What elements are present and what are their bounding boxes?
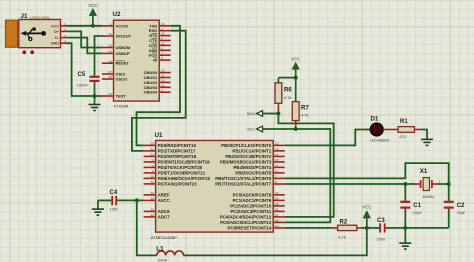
ground (R1) [421,139,433,145]
junction R6/SDA [276,112,280,116]
svg-text:19: 19 [150,208,154,212]
svg-text:R2: R2 [340,220,348,226]
svg-text:2: 2 [439,180,441,184]
crystal X1 16MHz [412,168,449,199]
wire PB7/XTAL2 to crystal [285,183,416,185]
svg-text:LED-GREEN: LED-GREEN [370,139,389,143]
junction crystal pin1/C1 [403,182,407,186]
svg-text:17: 17 [275,169,279,173]
wire L1 to VCC junction [184,228,367,256]
svg-text:C1: C1 [413,203,421,209]
resistor R6 4.7k [275,78,292,114]
svg-text:4.7k: 4.7k [301,113,309,118]
capacitor C2 22pF [444,184,466,228]
resistor R7 4.7k [292,78,309,129]
junction crystal pin2/C2 [447,182,451,186]
svg-text:PC0/ADC0/PCINT8: PC0/ADC0/PCINT8 [233,193,272,198]
svg-text:GND: GND [51,42,60,46]
svg-text:VCC: VCC [362,204,371,209]
junction C1 ground [403,226,407,230]
svg-text:AVCC: AVCC [158,198,171,203]
wire C1/C2 bottoms [405,227,448,229]
led D1 LED-GREEN [367,115,399,142]
wire GND net (J1 GND - C5 - TEST) [67,43,103,96]
wire PC6/RESET to R2 [285,227,332,229]
svg-text:1: 1 [64,22,66,26]
wire SCL to PC5 [263,129,331,222]
wire AVCC down to L1 [137,200,157,255]
svg-text:3: 3 [161,56,163,60]
svg-text:14: 14 [275,153,279,157]
svg-text:15: 15 [108,44,112,48]
svg-text:10: 10 [150,175,154,179]
svg-text:21: 21 [161,74,165,78]
svg-text:32: 32 [161,32,165,36]
svg-text:27: 27 [275,213,279,217]
capacitor C3 100n [377,218,406,241]
svg-text:U2: U2 [113,11,121,18]
svg-text:D1: D1 [371,115,379,122]
svg-text:VCC: VCC [51,24,59,28]
junction VCC/R2/C3/L1 [365,226,369,230]
svg-text:20: 20 [150,191,154,195]
svg-text:PC6/RESET/PCINT14: PC6/RESET/PCINT14 [228,226,272,231]
wire SDA to PC4 [263,114,334,217]
svg-text:ATMEGA328P: ATMEGA328P [151,235,177,240]
svg-text:ADC7: ADC7 [158,215,171,220]
svg-text:RI: RI [153,58,157,63]
capacitor C5 100nF [77,72,100,96]
svg-text:RESET: RESET [116,61,130,66]
wire R2 to VCC junction [362,227,379,229]
svg-text:1: 1 [152,158,154,162]
svg-text:C4: C4 [110,190,118,196]
svg-text:PD5/T1/OC0B/PCINT21: PD5/T1/OC0B/PCINT21 [158,171,206,176]
resistor R1 470 [398,119,422,139]
svg-text:PC5/ADC5/SCL/PCINT13: PC5/ADC5/SCL/PCINT13 [220,220,272,225]
svg-text:PD0/RXD/PCINT16: PD0/RXD/PCINT16 [158,143,197,148]
svg-text:18: 18 [150,197,154,201]
svg-text:10mH: 10mH [157,258,167,262]
svg-text:PD7/AIN1/PCINT23: PD7/AIN1/PCINT23 [158,182,198,187]
svg-text:FT232R: FT232R [114,103,129,108]
svg-text:C5: C5 [78,72,86,78]
svg-text:14: 14 [108,50,112,54]
svg-text:28: 28 [108,75,112,79]
svg-text:SCL: SCL [247,127,255,132]
wire VCC J1-VCCIO [67,25,103,27]
connector J1 USBCONN [6,13,67,54]
svg-text:R7: R7 [301,106,309,112]
svg-text:7: 7 [161,51,163,55]
svg-text:16MHz: 16MHz [422,195,434,199]
svg-text:1: 1 [110,22,112,26]
wire D- to USBDP [67,38,103,54]
svg-text:USBDP: USBDP [116,51,130,56]
svg-text:12: 12 [275,142,279,146]
svg-text:28: 28 [275,219,279,223]
svg-text:PC2/ADC2/PCINT10: PC2/ADC2/PCINT10 [230,204,272,209]
svg-text:100nF: 100nF [77,83,89,88]
svg-text:9: 9 [152,169,154,173]
svg-text:L1: L1 [156,245,164,252]
svg-text:VCC: VCC [88,3,97,8]
svg-text:PD2/INT0/PCINT18: PD2/INT0/PCINT18 [158,154,197,159]
chip U2 FT232R [102,11,171,108]
junction C5 ground [93,94,97,98]
svg-text:USBCONN: USBCONN [30,15,50,20]
svg-text:25: 25 [275,202,279,206]
svg-text:TEST: TEST [116,94,127,99]
svg-text:8: 8 [161,37,163,41]
svg-text:C2: C2 [457,203,465,209]
inductor L1 10mH [156,245,183,262]
wire D+ to USBDM [67,31,103,47]
svg-text:29: 29 [275,224,279,228]
wire 3V3OUT to C5 [95,36,103,76]
wire TXD to PD0/RXD [137,26,181,146]
svg-text:PB0/ICP1/CLKO/PCINT0: PB0/ICP1/CLKO/PCINT0 [221,143,272,148]
wire R1 to ground [422,130,427,140]
svg-text:PB6/TOSC1/XTAL1/PCINT6: PB6/TOSC1/XTAL1/PCINT6 [215,176,272,181]
svg-text:4: 4 [64,39,66,43]
svg-text:16: 16 [108,32,112,36]
wire VCC to R6/R7 tops [278,77,295,79]
svg-text:R6: R6 [284,88,292,94]
wire PB0 to LED D1 [285,130,371,146]
svg-text:PB5/SCK/PCINT5: PB5/SCK/PCINT5 [235,171,271,176]
wire ground to C4 [98,199,111,201]
power flag VCC (reset/C3) [362,204,371,228]
svg-text:31: 31 [161,42,165,46]
svg-text:31: 31 [150,147,154,151]
svg-text:PB3/MOSI/OC2A/PCINT3: PB3/MOSI/OC2A/PCINT3 [220,160,272,165]
svg-text:VCC: VCC [291,57,300,62]
svg-text:22pF: 22pF [413,211,422,215]
svg-text:22: 22 [150,213,154,217]
svg-text:22pF: 22pF [457,211,466,215]
svg-text:C3: C3 [377,218,385,224]
power flag VCC (J1/U2) [88,3,97,26]
svg-text:15: 15 [275,158,279,162]
svg-text:7: 7 [275,175,277,179]
svg-text:6: 6 [161,46,163,50]
svg-text:PD6/AIN0/OC0A/PCINT22: PD6/AIN0/OC0A/PCINT22 [158,176,211,181]
svg-text:3V3OUT: 3V3OUT [116,34,132,39]
svg-text:OSCO: OSCO [116,77,128,82]
svg-text:2: 2 [152,164,154,168]
svg-text:30: 30 [161,22,165,26]
svg-text:30: 30 [150,142,154,146]
svg-text:22: 22 [161,69,165,73]
svg-text:VCCIO: VCCIO [116,23,129,28]
svg-text:9: 9 [161,88,163,92]
svg-text:R1: R1 [400,119,408,125]
svg-text:J1: J1 [21,13,28,20]
svg-text:PB4/MISO/PCINT4: PB4/MISO/PCINT4 [233,165,271,170]
svg-text:26: 26 [108,92,112,96]
svg-text:18: 18 [108,59,112,63]
power flag VCC (R6/R7) [291,57,300,78]
svg-text:PD4/T0/XCK/PCINT20: PD4/T0/XCK/PCINT20 [158,165,203,170]
wire RXD to PD1/TXD [132,31,186,151]
svg-text:10: 10 [161,79,165,83]
svg-text:PB2/SS/OC1B/PCINT2: PB2/SS/OC1B/PCINT2 [225,154,271,159]
svg-text:SDA: SDA [247,111,255,116]
svg-text:8: 8 [275,180,277,184]
wire PB6/XTAL1 staple [285,163,449,184]
svg-text:CBUS4: CBUS4 [144,90,158,95]
svg-text:100n: 100n [110,208,118,212]
svg-text:11: 11 [161,83,164,87]
terminal SCL [247,126,262,132]
resistor R2 4.7k [332,220,362,240]
svg-text:2: 2 [64,28,66,32]
svg-text:100n: 100n [377,237,385,241]
svg-text:470: 470 [399,134,406,139]
svg-text:4.7k: 4.7k [338,234,346,239]
svg-text:24: 24 [275,197,279,201]
ground (below C5) [94,96,96,104]
svg-text:4.7k: 4.7k [284,95,292,100]
svg-text:PD1/TXD/PCINT17: PD1/TXD/PCINT17 [158,149,196,154]
junction R7/SCL [294,127,298,131]
ground (C4) [97,200,99,208]
svg-text:16: 16 [275,164,279,168]
svg-text:ADC6: ADC6 [158,209,171,214]
svg-text:AREF: AREF [158,193,170,198]
svg-text:PB1/OC1A/PCINT1: PB1/OC1A/PCINT1 [232,149,271,154]
svg-text:23: 23 [275,191,279,195]
chip U1 ATMEGA328P [144,132,285,240]
svg-text:X1: X1 [420,168,428,175]
capacitor C4 100n [110,190,144,212]
svg-text:26: 26 [275,208,279,212]
svg-text:D+: D+ [54,30,60,34]
svg-text:11: 11 [151,180,154,184]
svg-text:PC4/ADC4/SDA/PCINT12: PC4/ADC4/SDA/PCINT12 [220,215,272,220]
svg-text:3: 3 [64,34,66,38]
junction AVCC/C4/L1 [135,198,139,202]
svg-text:PD3/INT1/OC2B/PCINT19: PD3/INT1/OC2B/PCINT19 [158,160,211,165]
svg-text:U1: U1 [155,132,163,139]
svg-text:2: 2 [161,27,163,31]
svg-text:USBDM: USBDM [116,45,131,50]
svg-text:32: 32 [150,153,154,157]
svg-text:13: 13 [275,147,279,151]
svg-text:27: 27 [108,70,112,74]
svg-text:PB7/TOSC2/XTAL2/PCINT7: PB7/TOSC2/XTAL2/PCINT7 [215,182,272,187]
capacitor C1 22pF [400,184,422,228]
svg-text:PC3/ADC3/PCINT11: PC3/ADC3/PCINT11 [230,209,271,214]
junction VCC flag [91,24,95,28]
ground (crystal caps) [404,228,406,243]
terminal SDA [247,111,263,117]
svg-text:PC1/ADC1/PCINT9: PC1/ADC1/PCINT9 [233,198,272,203]
svg-text:1: 1 [412,180,414,184]
